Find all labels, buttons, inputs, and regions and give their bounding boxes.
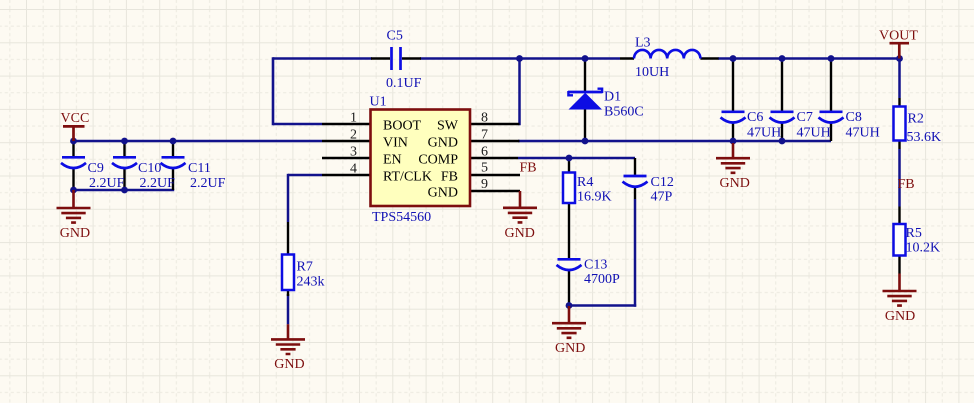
wire R2 to R5 feedback node	[898, 149, 901, 207]
wire C12 leads	[634, 158, 636, 199]
svg-text:C7: C7	[797, 110, 813, 125]
node VIN rail at C11	[170, 138, 177, 145]
svg-text:FB: FB	[441, 170, 458, 185]
pin 1 BOOT lead	[322, 123, 371, 125]
svg-text:6: 6	[481, 145, 488, 160]
svg-text:R2: R2	[908, 112, 924, 127]
svg-text:VCC: VCC	[61, 111, 90, 126]
svg-text:FB: FB	[898, 177, 915, 192]
svg-text:47UH: 47UH	[747, 126, 781, 141]
node C7 top	[779, 55, 786, 62]
ground at pin 9	[503, 191, 537, 222]
svg-text:10.2K: 10.2K	[906, 241, 941, 256]
svg-text:5: 5	[481, 161, 488, 176]
svg-text:GND: GND	[428, 136, 458, 151]
svg-text:EN: EN	[383, 153, 402, 168]
capacitor C7	[770, 112, 795, 123]
wire C9 leads	[72, 141, 74, 190]
ground below R7	[271, 324, 305, 354]
svg-text:C12: C12	[651, 175, 674, 190]
wire R7 bottom lead	[287, 290, 289, 296]
capacitor C8	[819, 112, 844, 123]
svg-text:47P: 47P	[651, 190, 673, 205]
resistor R2	[894, 107, 906, 141]
svg-text:2: 2	[350, 128, 357, 143]
svg-text:C10: C10	[138, 161, 161, 176]
pin 6 COMP lead	[471, 157, 519, 159]
svg-text:GND: GND	[274, 357, 304, 372]
wire R2 top lead	[898, 98, 900, 107]
svg-text:GND: GND	[720, 176, 750, 191]
capacitor C5	[392, 47, 401, 70]
pin 9 GND lead	[471, 190, 521, 192]
node SW at top rail	[516, 55, 523, 62]
pin 7 GND lead	[471, 140, 520, 142]
node COMP at R4	[566, 155, 573, 162]
svg-text:47UH: 47UH	[797, 126, 831, 141]
node D1 top	[582, 55, 589, 62]
wire C12 bottom vertical	[634, 199, 637, 307]
node C6 top	[730, 55, 737, 62]
node C8 top	[828, 55, 835, 62]
capacitor C12	[623, 176, 648, 187]
wire compensation bottom horizontal	[569, 304, 636, 307]
wire C10 leads	[123, 141, 125, 190]
svg-text:53.6K: 53.6K	[907, 130, 942, 145]
wire SW vertical to pin 8	[518, 59, 521, 126]
svg-text:C9: C9	[88, 161, 104, 176]
svg-text:GND: GND	[428, 186, 458, 201]
ground below C6 on output	[716, 143, 750, 173]
svg-text:C6: C6	[747, 110, 763, 125]
wire R2 bottom lead	[898, 141, 900, 150]
svg-text:VIN: VIN	[383, 136, 408, 151]
svg-text:1: 1	[350, 111, 357, 126]
node VIN rail at C10	[121, 138, 128, 145]
node C7 bottom on GND rail	[779, 138, 786, 145]
wire R7 to ground	[287, 294, 290, 324]
node caps bottom rail at C10	[121, 187, 128, 194]
svg-text:TPS54560: TPS54560	[372, 210, 431, 225]
wire C7 leads	[781, 59, 783, 142]
svg-text:GND: GND	[60, 226, 90, 241]
capacitor C11	[161, 157, 186, 168]
resistor R7	[282, 255, 294, 291]
svg-text:R4: R4	[577, 175, 593, 190]
svg-text:3: 3	[350, 145, 357, 160]
wire C5 left lead	[371, 57, 390, 59]
svg-text:R5: R5	[906, 226, 922, 241]
wire R7 top lead	[287, 222, 289, 255]
svg-text:C5: C5	[387, 29, 403, 44]
svg-text:243k: 243k	[297, 275, 325, 290]
svg-text:2.2UF: 2.2UF	[140, 176, 176, 191]
wire COMP pin 6 to C12	[518, 157, 635, 160]
svg-text:R7: R7	[297, 260, 313, 275]
pin 3 EN lead	[322, 157, 371, 159]
node caps bottom rail at C9	[70, 187, 77, 194]
svg-text:4700P: 4700P	[584, 272, 620, 287]
svg-text:10UH: 10UH	[635, 65, 669, 80]
node D1 bottom on GND rail	[582, 138, 589, 145]
svg-text:FB: FB	[520, 161, 537, 176]
capacitor C10	[112, 157, 137, 168]
resistor R5	[894, 224, 906, 256]
wire R4 top lead	[568, 158, 570, 173]
svg-text:9: 9	[481, 177, 488, 192]
svg-text:U1: U1	[370, 95, 387, 110]
node VOUT corner	[896, 55, 903, 62]
wire GND rail pin 7 to C8	[518, 140, 831, 143]
wire D1 leads	[584, 59, 586, 142]
svg-text:8: 8	[481, 111, 488, 126]
wire RT/CLK vertical to R7	[287, 174, 290, 222]
node VIN rail at C9	[70, 138, 77, 145]
ground below C13	[552, 306, 586, 338]
wire C8 leads	[830, 59, 832, 142]
svg-text:COMP: COMP	[418, 153, 458, 168]
resistor R4	[563, 173, 575, 204]
wire VOUT to R2	[898, 59, 901, 99]
svg-text:D1: D1	[604, 90, 621, 105]
svg-text:7: 7	[481, 128, 488, 143]
svg-text:4: 4	[350, 162, 357, 177]
svg-text:2.2UF: 2.2UF	[89, 176, 125, 191]
capacitor C9	[61, 157, 86, 168]
svg-text:SW: SW	[437, 119, 459, 134]
svg-text:B560C: B560C	[604, 105, 644, 120]
wire RT/CLK horizontal to pin 4	[288, 174, 322, 177]
ground below R5	[883, 274, 917, 306]
wire top rail left of C5	[273, 57, 372, 60]
pin 2 VIN lead	[322, 140, 371, 142]
svg-text:GND: GND	[885, 309, 915, 324]
power port VOUT	[890, 43, 910, 58]
wire top rail L3 to VOUT	[718, 57, 900, 60]
svg-text:C13: C13	[584, 258, 607, 273]
pin 8 SW lead	[471, 123, 520, 125]
wire C6 leads	[732, 59, 734, 142]
wire R5 top lead	[898, 207, 900, 225]
wire C13 bottom lead	[568, 271, 570, 306]
pin 5 FB lead	[471, 174, 521, 176]
inductor L3	[634, 50, 700, 59]
wire BOOT horizontal to pin 1	[273, 123, 322, 126]
wire R5 bottom lead	[898, 256, 900, 274]
op-amp U1 TPS54560 body	[371, 110, 471, 207]
pin 4 RT/CLK lead	[322, 174, 371, 176]
svg-text:C8: C8	[846, 110, 862, 125]
power port VCC	[63, 126, 85, 141]
svg-text:RT/CLK: RT/CLK	[383, 170, 432, 185]
wire R4 to C13 lead	[568, 203, 570, 258]
svg-text:16.9K: 16.9K	[577, 190, 612, 205]
svg-text:BOOT: BOOT	[383, 119, 422, 134]
svg-text:GND: GND	[555, 341, 585, 356]
node C6 bottom on GND rail	[730, 138, 737, 145]
wire top rail C5 to SW node	[420, 57, 620, 60]
svg-text:2.2UF: 2.2UF	[190, 176, 226, 191]
svg-text:C11: C11	[188, 161, 211, 176]
diode D1 B560C schottky	[568, 89, 603, 110]
wire input caps bottom rail	[74, 189, 175, 192]
wire C5 right lead	[402, 57, 421, 59]
svg-text:GND: GND	[505, 226, 535, 241]
capacitor C6	[721, 112, 746, 123]
svg-text:47UH: 47UH	[846, 126, 880, 141]
svg-text:0.1UF: 0.1UF	[386, 76, 422, 91]
wire BOOT vertical riser	[272, 57, 275, 125]
ground below input caps	[57, 190, 91, 223]
wire VIN rail from VCC to pin 2	[72, 140, 322, 143]
node compensation bottom at R4/C13	[566, 302, 573, 309]
wire C11 leads	[172, 141, 174, 190]
svg-text:L3: L3	[635, 36, 651, 51]
capacitor C13	[557, 259, 582, 270]
wire L3 leads	[620, 57, 719, 59]
svg-text:VOUT: VOUT	[879, 29, 918, 44]
